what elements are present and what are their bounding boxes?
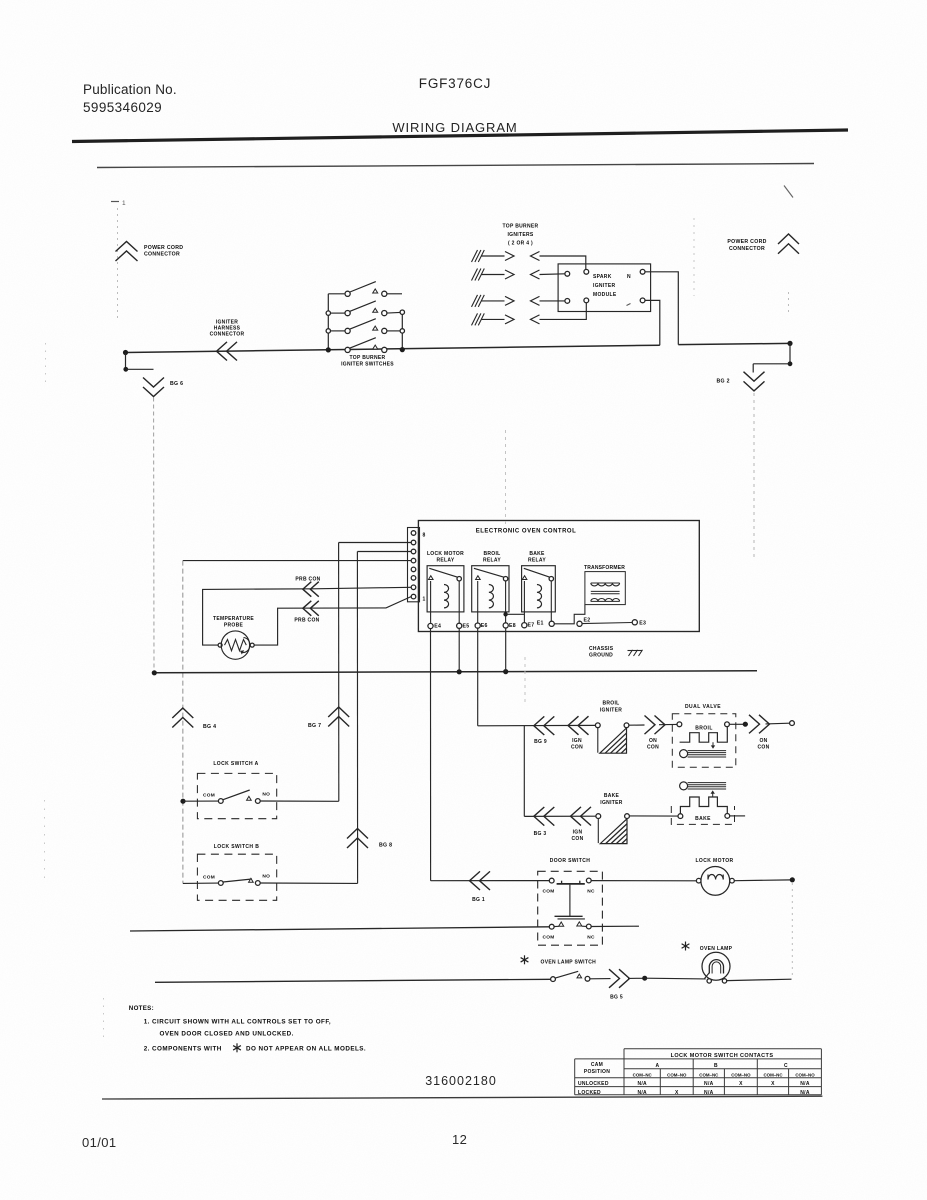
label bake igniter (600, 793, 622, 806)
faint crease upper (505, 430, 507, 525)
label ON CON broil (647, 738, 659, 751)
label row unlocked (578, 1081, 609, 1087)
svg-text:BAKE: BAKE (529, 551, 545, 557)
junction dot lamp row (642, 976, 647, 981)
svg-text:DUAL VALVE: DUAL VALVE (685, 704, 721, 710)
igniter bake symbol (596, 814, 630, 844)
bottom border line (102, 1096, 822, 1099)
text title WIRING DIAGRAM (392, 120, 517, 135)
svg-text:CONNECTOR: CONNECTOR (729, 246, 765, 252)
svg-text:GROUND: GROUND (589, 653, 613, 659)
wire lock switch B out (260, 882, 357, 884)
node L1 mark (111, 200, 126, 207)
label bake valve (695, 816, 711, 822)
svg-text:BAKE: BAKE (695, 816, 711, 822)
svg-text:ELECTRONIC OVEN CONTROL: ELECTRONIC OVEN CONTROL (476, 529, 577, 535)
connector BG 6 symbol (143, 378, 164, 397)
terminal broil valve right (725, 722, 730, 727)
wire main L1 run (125, 345, 660, 352)
label igniter harness connector (210, 320, 245, 338)
label top burner igniters (503, 224, 539, 247)
svg-text:N: N (627, 274, 631, 280)
svg-text:COM–NO: COM–NO (667, 1072, 687, 1077)
switch top burner igniter 1 (328, 282, 402, 297)
wire E8 drop (505, 628, 507, 672)
switch top burner igniter 2 (326, 301, 404, 316)
note 2 star (233, 1043, 241, 1052)
junction dot right stub (788, 361, 793, 366)
svg-text:POWER CORD: POWER CORD (144, 245, 183, 251)
svg-text:TEMPERATURE: TEMPERATURE (213, 616, 254, 622)
wire BG2 stub drop (752, 364, 754, 373)
svg-text:N/A: N/A (704, 1081, 714, 1087)
svg-text:1: 1 (423, 597, 426, 603)
label pin 1 (423, 597, 426, 603)
wire to ON CON right (745, 723, 748, 725)
svg-text:C: C (784, 1063, 788, 1069)
junction dot broil out (743, 722, 748, 727)
solenoid broil valve (680, 727, 728, 758)
module pin in1 (584, 269, 589, 274)
svg-text:5995346029: 5995346029 (83, 100, 162, 115)
svg-text:N/A: N/A (800, 1081, 810, 1087)
table contact headers (633, 1072, 816, 1077)
svg-text:OVEN DOOR CLOSED AND UNLOCKED.: OVEN DOOR CLOSED AND UNLOCKED. (160, 1031, 294, 1038)
temperature probe terminal right (250, 643, 254, 647)
connector power cord right symbol (778, 234, 799, 254)
label BG 5 (610, 995, 623, 1001)
connector IGN CON bake symbol (571, 807, 592, 826)
wire ON CON to dual valve (659, 723, 677, 725)
wire bake branch vertical (523, 726, 525, 817)
terminal E6 (475, 623, 488, 629)
svg-text:BG 6: BG 6 (170, 381, 183, 387)
svg-text:ON: ON (649, 738, 657, 744)
svg-text:BG 9: BG 9 (534, 739, 547, 745)
terminal oven lamp right (722, 979, 726, 983)
svg-text:1: 1 (122, 200, 126, 207)
svg-text:COM: COM (203, 874, 215, 880)
junction dot E5 drop (457, 669, 462, 674)
module pin in4 (584, 298, 589, 303)
terminal bake valve left (678, 814, 683, 819)
wire pin5 long left (183, 560, 411, 562)
switch top burner igniter 4 (345, 338, 387, 353)
lock switch A dashed box (197, 773, 276, 818)
second rule (97, 164, 814, 168)
text publication no (83, 82, 177, 97)
svg-text:E4: E4 (434, 624, 441, 630)
wire right end drop (789, 343, 791, 363)
svg-text:E5: E5 (463, 624, 470, 630)
connector ON CON right symbol (749, 715, 770, 734)
svg-text:BROIL: BROIL (483, 551, 500, 557)
igniter electrode row 2 (472, 269, 540, 281)
wire BG5 to junction (628, 977, 643, 979)
connector BG 1 symbol (470, 871, 491, 890)
wire bake valve out (730, 815, 745, 817)
label col C (784, 1063, 788, 1069)
module pin in2 (565, 271, 570, 276)
text footer page (452, 1132, 467, 1147)
door switch row2 contacts (554, 922, 586, 927)
note 1 line 2 (160, 1031, 294, 1038)
connector power cord left symbol (116, 242, 138, 262)
label lock switch A (213, 761, 258, 767)
wire main N run right (678, 343, 790, 344)
svg-text:OVEN LAMP SWITCH: OVEN LAMP SWITCH (541, 959, 597, 965)
wire module out1 (645, 272, 678, 345)
svg-text:PROBE: PROBE (224, 623, 244, 629)
junction dot lock switch A (180, 799, 185, 804)
door switch row1 contact ticks (562, 881, 580, 885)
svg-text:IGNITER: IGNITER (600, 708, 622, 714)
svg-text:CONNECTOR: CONNECTOR (210, 332, 245, 338)
label pin 8 (423, 533, 426, 539)
svg-text:DOOR SWITCH: DOOR SWITCH (550, 858, 591, 864)
door switch actuator bars (555, 916, 585, 919)
junction dot E8 drop (503, 669, 508, 674)
wire BG8 vertical (356, 552, 358, 884)
svg-text:NO: NO (262, 792, 270, 798)
switch top burner igniter 3 (326, 319, 404, 334)
electronic oven control box (418, 521, 699, 632)
svg-text:CON: CON (571, 745, 583, 751)
svg-text:E6: E6 (481, 623, 488, 629)
svg-text:POSITION: POSITION (584, 1069, 610, 1075)
wire lock switch A in (183, 800, 219, 802)
svg-text:PRB CON: PRB CON (294, 618, 319, 624)
svg-text:DO NOT APPEAR ON ALL MODELS.: DO NOT APPEAR ON ALL MODELS. (246, 1046, 366, 1053)
wire igniter3 to module (540, 300, 565, 302)
label COM lock B (203, 874, 215, 880)
svg-text:CONNECTOR: CONNECTOR (144, 252, 180, 258)
svg-text:BG 1: BG 1 (472, 897, 485, 903)
svg-text:CON: CON (647, 745, 659, 751)
svg-text:Publication No.: Publication No. (83, 82, 177, 97)
igniter electrode row 3 (472, 295, 540, 307)
terminal lock motor right (730, 878, 735, 883)
faint dash below right connector (788, 292, 790, 312)
svg-text:COM–NC: COM–NC (699, 1072, 719, 1077)
wire igniter1 to module (540, 256, 586, 269)
wire bake igniter to valve (629, 815, 678, 817)
svg-text:316002180: 316002180 (425, 1074, 497, 1088)
wire door switch row1 out (591, 880, 698, 882)
wire igniter2 to module (540, 273, 565, 276)
label broil igniter (600, 701, 622, 714)
svg-text:COM: COM (542, 934, 554, 940)
label ON CON right (757, 738, 769, 751)
svg-text:CON: CON (571, 836, 583, 842)
note 2 part 1 (144, 1046, 222, 1053)
svg-text:E2: E2 (584, 618, 591, 624)
wire BG 6 vertical (faint) (153, 398, 155, 673)
label dual valve (685, 704, 721, 710)
svg-text:TOP BURNER: TOP BURNER (350, 355, 386, 361)
connector ON CON broil symbol (645, 716, 666, 735)
svg-text:A: A (656, 1063, 660, 1069)
svg-text:2. COMPONENTS WITH: 2. COMPONENTS WITH (144, 1046, 222, 1053)
junction dot neutral left end (152, 670, 157, 675)
table line 3 (624, 1068, 821, 1070)
dual valve dashed box (672, 714, 736, 768)
terminal broil valve left (677, 722, 682, 727)
switch lock B (218, 878, 260, 885)
connector BG 2 symbol (744, 372, 765, 391)
svg-text:LOCK MOTOR: LOCK MOTOR (427, 551, 464, 557)
svg-text:RELAY: RELAY (437, 558, 455, 564)
svg-text:BAKE: BAKE (604, 793, 620, 799)
svg-text:OVEN LAMP: OVEN LAMP (700, 946, 733, 952)
wire relay link (506, 613, 525, 615)
svg-text:NC: NC (587, 889, 595, 895)
junction dot left end of main wire (123, 350, 128, 355)
svg-text:NO: NO (262, 874, 270, 880)
lock switch B dashed box (197, 854, 276, 900)
svg-text:ON: ON (759, 738, 767, 744)
table line 2 (575, 1058, 822, 1060)
table title top line (624, 1048, 821, 1050)
wire left end drop (125, 353, 127, 370)
faint margin dash below L1 (117, 208, 119, 318)
svg-text:IGNITER: IGNITER (600, 800, 622, 806)
svg-text:IGN: IGN (573, 830, 583, 836)
svg-text:CAM: CAM (591, 1062, 603, 1068)
wire left stub (126, 368, 154, 370)
wire to right terminal broil (766, 722, 790, 725)
label lock motor (695, 858, 733, 864)
relay K3 bake (522, 551, 556, 623)
junction dot left stub (123, 367, 128, 372)
switch oven lamp (551, 971, 590, 981)
table line 4 (575, 1077, 822, 1079)
text publication number value (83, 100, 162, 115)
terminal bake valve right (725, 814, 730, 819)
wire door switch row2 in (130, 927, 549, 931)
note 2 part 2 (246, 1046, 366, 1053)
connector IGN CON broil symbol (568, 716, 589, 735)
wire oven lamp row (155, 979, 551, 982)
connector PRB CON upper symbol (303, 582, 319, 597)
label BG 3 (534, 831, 547, 837)
wire E2 to E3 (582, 623, 632, 624)
label NO lock A (262, 792, 270, 798)
eoc pin connector box (408, 528, 420, 602)
svg-text:12: 12 (452, 1132, 467, 1147)
table locked values (637, 1090, 809, 1096)
svg-text:BG 4: BG 4 (203, 724, 216, 730)
svg-text:( 2 OR 4 ): ( 2 OR 4 ) (508, 241, 533, 247)
eoc pin connector pins (411, 531, 416, 599)
svg-text:X: X (771, 1081, 775, 1087)
svg-text:PRB CON: PRB CON (295, 577, 320, 583)
faint right margin vertical (791, 883, 793, 977)
connector BG 8 symbol (347, 829, 368, 849)
svg-text:E3: E3 (639, 621, 646, 627)
label cam position (584, 1062, 610, 1075)
wire igniter4 to module (540, 303, 587, 319)
wire pin6 to BG8 (357, 551, 411, 553)
header rule (72, 130, 848, 142)
svg-text:BG 2: BG 2 (717, 379, 730, 385)
wire switch bank right vertical (401, 312, 403, 350)
door switch row1 COM (542, 878, 554, 894)
module pin in3 (565, 299, 570, 304)
wire E6 drop (477, 628, 479, 726)
wire lock switch A out (260, 800, 339, 802)
table vertical lines (575, 1049, 822, 1095)
junction dot switch bank right (400, 347, 405, 352)
igniter electrode row 1 (472, 250, 540, 262)
svg-text:BG 5: BG 5 (610, 995, 623, 1001)
svg-text:UNLOCKED: UNLOCKED (578, 1081, 609, 1087)
junction dot right end main wire (787, 341, 792, 346)
wire door switch actuator vertical (569, 885, 571, 917)
wire module out2 (645, 300, 660, 345)
svg-text:01/01: 01/01 (82, 1135, 117, 1150)
label row locked (578, 1090, 601, 1096)
svg-text:COM–NC: COM–NC (633, 1072, 653, 1077)
svg-text:RELAY: RELAY (483, 558, 501, 564)
svg-text:CON: CON (757, 745, 769, 751)
junction dot relay link (503, 612, 507, 616)
label BG 9 (534, 739, 547, 745)
svg-text:E8: E8 (509, 623, 516, 629)
chassis ground symbol (628, 650, 643, 656)
wire lamp switch to BG5 (590, 978, 611, 980)
label col B (714, 1063, 718, 1069)
switch lock A (218, 790, 260, 803)
terminal E5 (457, 623, 470, 629)
relay K2 broil (472, 551, 509, 623)
label oven lamp switch (521, 955, 597, 965)
svg-text:BG 3: BG 3 (534, 831, 547, 837)
svg-text:IGNITERS: IGNITERS (507, 232, 533, 238)
svg-text:IGNITER: IGNITER (593, 283, 615, 289)
terminal E7 (522, 623, 535, 629)
svg-text:TOP BURNER: TOP BURNER (503, 224, 539, 230)
terminal E3 (632, 620, 646, 627)
label COM lock A (203, 792, 215, 798)
text footer date (82, 1135, 117, 1150)
connector BG 7 symbol (328, 707, 349, 727)
svg-text:COM: COM (203, 792, 215, 798)
connector PRB CON lower symbol (303, 601, 319, 616)
relay K1 lock motor (427, 551, 464, 623)
terminal broil right end (790, 721, 795, 726)
note 1 line 1 (144, 1019, 331, 1026)
wire oven lamp out (727, 979, 792, 980)
label BG 8 (379, 843, 392, 849)
lamp oven symbol (702, 952, 730, 980)
svg-text:8: 8 (423, 533, 426, 539)
connector BG 3 symbol (534, 807, 555, 826)
svg-text:X: X (739, 1081, 743, 1087)
svg-text:MODULE: MODULE (593, 292, 617, 298)
text model FGF376CJ (419, 76, 491, 91)
svg-text:COM–NC: COM–NC (763, 1072, 783, 1077)
label door switch (550, 858, 591, 864)
svg-text:LOCK SWITCH B: LOCK SWITCH B (214, 844, 259, 850)
door switch row2 NC (586, 924, 595, 940)
wire E5 drop (458, 628, 460, 672)
module pin out L (640, 298, 645, 303)
label IGN CON bake (571, 830, 583, 843)
solenoid bake valve (680, 782, 728, 814)
svg-text:TRANSFORMER: TRANSFORMER (584, 565, 625, 571)
wire broil igniter to ON CON (629, 724, 645, 726)
svg-text:BG 8: BG 8 (379, 843, 392, 849)
svg-text:LOCK MOTOR SWITCH CONTACTS: LOCK MOTOR SWITCH CONTACTS (671, 1053, 774, 1059)
svg-text:POWER CORD: POWER CORD (727, 239, 766, 245)
terminal oven lamp left (707, 979, 711, 983)
wire bake row (524, 815, 596, 817)
table unlocked values (637, 1081, 809, 1087)
label BG 4 (203, 724, 216, 730)
wire broil row (478, 724, 596, 726)
label top burner igniter switches (341, 355, 394, 368)
module small mark (627, 304, 631, 306)
temperature probe symbol (221, 631, 250, 659)
label oven lamp (682, 942, 733, 953)
svg-text:BROIL: BROIL (602, 701, 619, 707)
text part number 316002180 (425, 1074, 497, 1088)
svg-text:N/A: N/A (637, 1081, 647, 1087)
svg-text:COM: COM (542, 889, 554, 895)
terminal E4 (428, 623, 441, 629)
bake valve dashed box (671, 806, 734, 824)
connector BG 9 symbol (534, 716, 555, 735)
svg-text:IGNITER SWITCHES: IGNITER SWITCHES (341, 361, 394, 367)
label broil valve (695, 726, 713, 732)
wire door switch row2 out (591, 925, 639, 927)
svg-text:IGN: IGN (572, 738, 582, 744)
wire junction to lamp (645, 977, 706, 980)
connector BG 5 symbol (609, 969, 630, 988)
terminal E2 (577, 618, 591, 627)
connector BG 4 symbol (172, 708, 193, 728)
connector igniter harness symbol (217, 342, 238, 361)
wire switch bank left vertical (327, 294, 329, 350)
table bottom line (575, 1094, 822, 1096)
wire lock switch B in (183, 882, 219, 884)
door switch row2 COM (542, 924, 554, 940)
wire broil valve out (729, 723, 743, 725)
svg-text:BG 7: BG 7 (308, 723, 321, 729)
junction dot switch bank left (326, 347, 331, 352)
stray tick mark (784, 186, 793, 198)
svg-text:E7: E7 (528, 623, 535, 629)
label BG 2 (717, 379, 730, 385)
label power cord connector right (727, 239, 766, 252)
label spark igniter module (593, 274, 617, 298)
svg-text:BROIL: BROIL (695, 726, 713, 732)
wire door switch row1 in (431, 880, 550, 882)
svg-text:COM–NO: COM–NO (795, 1072, 815, 1077)
transformer T1 (585, 572, 625, 605)
label NO lock B (262, 874, 270, 880)
temperature probe terminal left (218, 643, 222, 647)
label transformer (584, 565, 625, 571)
label temperature probe (213, 616, 254, 629)
label lock switch B (214, 844, 259, 850)
module pin out N (640, 269, 645, 274)
svg-text:WIRING DIAGRAM: WIRING DIAGRAM (392, 120, 517, 135)
junction dot lock motor right end (790, 877, 795, 882)
igniter broil symbol (595, 723, 629, 753)
label lock motor switch contacts (671, 1053, 774, 1059)
